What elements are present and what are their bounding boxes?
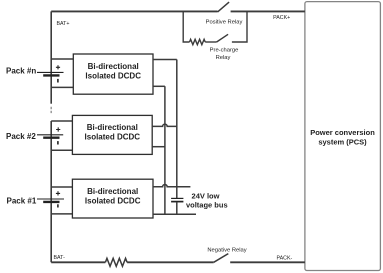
wire pack 1 top (51, 186, 72, 188)
battery B1 minus (57, 204, 59, 207)
battery B1 plates (37, 198, 64, 200)
resistor R2 shunt (105, 258, 127, 266)
PCS box U1 (305, 2, 381, 271)
svg-text:voltage bus: voltage bus (186, 201, 228, 210)
wire BAT- rail mid (127, 261, 214, 263)
wire U2 out bottom (153, 85, 165, 87)
battery B2 plates (37, 134, 63, 136)
svg-text:Bi-directional: Bi-directional (87, 187, 138, 196)
svg-text:BAT+: BAT+ (57, 21, 70, 27)
wire pre-charge right riser (232, 11, 247, 42)
svg-text:Bi-directional: Bi-directional (87, 123, 138, 132)
DCDC box U4 (72, 179, 153, 218)
negative relay K3 blade (214, 254, 229, 263)
bus line B plus vertical upper (176, 60, 178, 199)
svg-text:Power conversion: Power conversion (310, 128, 375, 137)
svg-text:Pack #n: Pack #n (6, 67, 36, 76)
battery Bn plus (56, 65, 60, 69)
DCDC box U3 (72, 115, 152, 154)
left series bus upper (battery string) (50, 11, 52, 103)
svg-text:Isolated DCDC: Isolated DCDC (85, 196, 141, 205)
svg-text:system (PCS): system (PCS) (318, 138, 367, 147)
wire pre-charge branch left drop (183, 11, 189, 42)
wire BAT+ rail right segment (231, 10, 305, 12)
wire pack n top (51, 58, 73, 60)
svg-text:PACK+: PACK+ (273, 15, 290, 21)
wire pack 2 bottom (51, 149, 72, 151)
svg-text:Isolated DCDC: Isolated DCDC (85, 133, 141, 142)
svg-text:Relay: Relay (216, 55, 231, 61)
wire pack 2 top (51, 120, 72, 122)
bus line B plus vertical lower (176, 202, 178, 214)
svg-text:BAT-: BAT- (54, 255, 66, 261)
battery B2 plus (56, 127, 60, 131)
wire U3 out top with hop over minus bus (152, 124, 177, 126)
battery B2 minus (57, 141, 59, 144)
capacitor C1 plates (171, 197, 183, 199)
svg-text:Pack #1: Pack #1 (7, 196, 37, 205)
wire BAT+ rail left segment (51, 10, 217, 12)
svg-text:Pre-charge: Pre-charge (210, 47, 239, 53)
battery B1 plus (56, 191, 60, 195)
battery Bn minus (57, 79, 59, 83)
wire pack 1 bottom (51, 213, 72, 215)
wire U4 out bottom / 24V bus return (153, 213, 196, 215)
wire U4 out top with hop over minus bus (153, 185, 190, 187)
wire pre-charge mid (205, 41, 216, 43)
wire U3 out bottom (152, 146, 165, 148)
DCDC box U2 (73, 54, 153, 94)
svg-text:Positive Relay: Positive Relay (206, 19, 243, 25)
wire BAT- rail right (230, 261, 305, 263)
svg-text:Bi-directional: Bi-directional (88, 62, 139, 71)
wire BAT- rail left (51, 261, 105, 263)
svg-text:Pack #2: Pack #2 (6, 132, 36, 141)
wire U2 out top (153, 59, 177, 61)
svg-text:24V low: 24V low (192, 191, 220, 200)
wire pack n bottom (51, 86, 73, 88)
svg-text:Isolated DCDC: Isolated DCDC (85, 71, 141, 80)
positive relay K1 blade (218, 2, 230, 12)
bus line A minus vertical (164, 86, 166, 214)
svg-text:Negative Relay: Negative Relay (207, 247, 246, 253)
left series bus lower (50, 121, 52, 262)
battery Bn plates (37, 71, 64, 73)
pre-charge relay K2 blade (217, 34, 229, 42)
bus ellipsis dashes (50, 107, 52, 115)
svg-text:PACK-: PACK- (277, 256, 293, 262)
resistor R1 pre-charge (190, 39, 206, 44)
